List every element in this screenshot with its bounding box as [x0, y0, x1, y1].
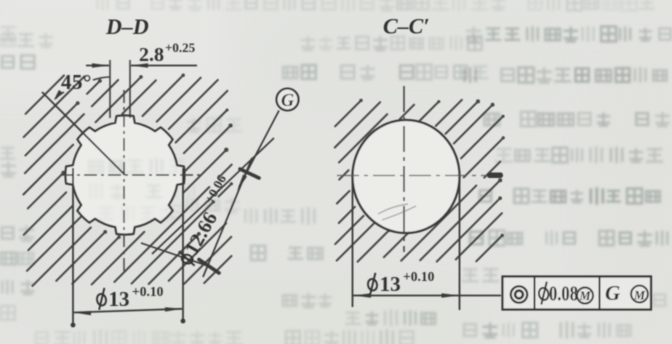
svg-text:G: G [281, 90, 294, 110]
svg-text:+0.10: +0.10 [132, 284, 164, 299]
svg-text:M: M [633, 289, 646, 303]
svg-text:13: 13 [380, 272, 401, 296]
svg-text:13: 13 [109, 287, 130, 311]
svg-text:2.8: 2.8 [139, 44, 164, 66]
svg-text:0.08: 0.08 [549, 282, 578, 306]
svg-text:+0.25: +0.25 [165, 40, 196, 55]
svg-text:M: M [578, 289, 591, 303]
svg-text:G: G [605, 281, 620, 305]
svg-text:+0.10: +0.10 [403, 269, 435, 284]
svg-text:D–D: D–D [105, 14, 149, 39]
svg-text:45°: 45° [61, 70, 92, 94]
svg-text:C–C′: C–C′ [383, 14, 430, 39]
